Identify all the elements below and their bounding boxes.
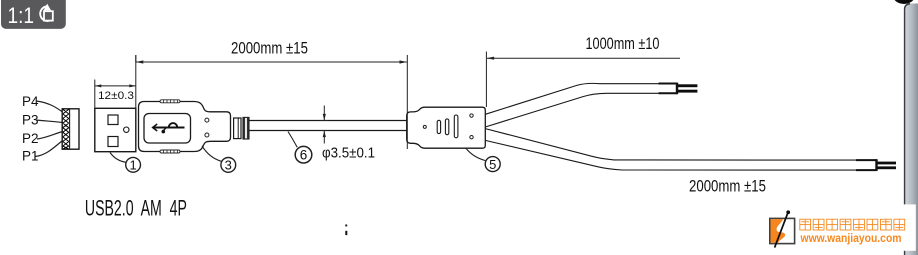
svg-text:1: 1 [129,158,136,173]
body rivet hole upper [205,118,209,122]
diameter dimension φ3.5±0.1 [321,106,329,144]
upper bare wire tips [678,84,698,87]
lower wire end sleeve [856,159,877,171]
svg-text:1000mm ±10: 1000mm ±10 [586,34,660,53]
leader wire P3 [36,120,63,123]
svg-text:1:1: 1:1 [8,3,35,28]
splitter hole top-right [470,114,473,117]
scrollbar track [905,4,918,255]
splitter hole left [423,125,426,128]
splitter vent slot 2 [445,119,448,135]
splitter vent slot 1 [437,120,440,133]
svg-text:2000mm ±15: 2000mm ±15 [231,38,308,57]
header pin crosses [63,109,69,149]
svg-text:5: 5 [489,157,496,172]
dimension 2000mm ±15 top [136,55,408,149]
stray punctuation mark [345,225,347,227]
svg-text:USB2.0 AM 4P: USB2.0 AM 4P [85,195,187,220]
svg-text:φ3.5±0.1: φ3.5±0.1 [322,145,375,161]
leader wire P2 [37,132,63,140]
svg-text:6: 6 [300,148,308,163]
dimension 12±0.3 [95,55,136,108]
4-pin header connector J1 [62,109,79,149]
lower output wire [485,129,856,171]
callout 1 [110,153,141,173]
dimension 1000mm ±10 [486,52,680,108]
watermark logo square [770,210,795,247]
cable splitter item 5 [407,107,486,148]
watermark panel [758,204,916,250]
svg-text:3: 3 [225,158,232,173]
svg-text:www.wanjiayou.com: www.wanjiayou.com [800,231,902,245]
scale badge 1:1 [1,0,66,29]
cable segment 6 [249,121,407,131]
callout 5 [466,148,500,172]
watermark company name [800,219,905,230]
callout 3 [202,146,236,173]
svg-text:2000mm ±15: 2000mm ±15 [689,177,766,196]
cable ferrule [234,117,249,139]
upper wire end sleeve [659,83,678,95]
svg-text:P2: P2 [22,131,39,146]
upper output wire [485,83,658,127]
USB-A plug side view body [139,102,231,152]
leader wire P1 [35,141,63,157]
corner dot top-right [894,0,915,4]
grip serration bottom [160,150,180,153]
lower bare wire tips [877,162,896,165]
splitter vent slot 3 [454,115,458,138]
body rivet hole lower [205,133,209,137]
USB trident icon [153,123,185,133]
svg-text:12±0.3: 12±0.3 [98,90,134,102]
USB-A shell front view [95,108,136,151]
grip serration top [160,100,180,103]
leader wire P4 [36,101,63,112]
USB logo plate [144,114,191,144]
callout 6 [288,132,312,164]
splitter hole bottom-right [470,136,473,139]
